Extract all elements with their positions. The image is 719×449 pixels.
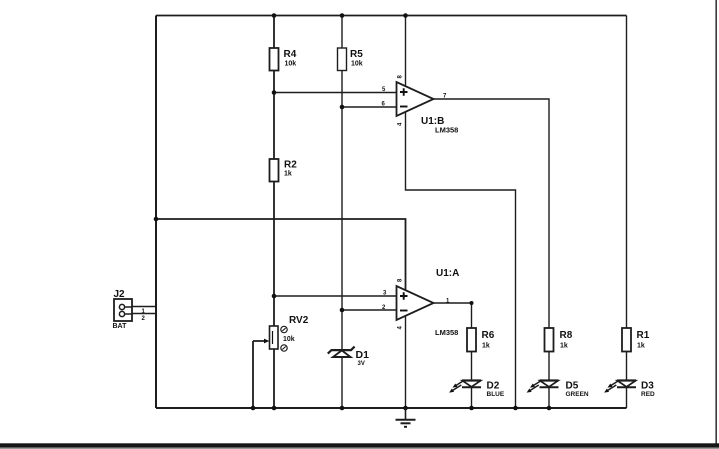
resistor R1 [622,328,650,352]
LED D2 triangle [463,381,481,387]
LED D3 [604,380,655,398]
svg-text:10k: 10k [351,61,363,68]
zener diode D1 cathode bar [328,347,355,354]
op-amp U1:A minus input symbol [400,310,408,312]
svg-text:R4: R4 [284,49,297,60]
resistor R6 body [467,328,476,352]
zener diode D1 anode triangle [333,350,351,357]
wire LED D5 cathode to bottom rail [548,387,550,408]
wire RV2 wiper to bottom rail [253,341,265,408]
svg-text:J2: J2 [114,289,126,300]
svg-text:1k: 1k [284,171,292,178]
wire R2 bottom to RV2 top [273,182,275,327]
wire node A to U1:B plus input pin 5 [274,92,397,94]
wire R6 bottom to LED D2 [471,352,473,382]
resistor R5 body [338,48,347,71]
junction bottom rail / RV2 [272,406,277,411]
resistor R8 body [545,328,554,352]
junction top rail / U1:B power [403,13,408,18]
resistor R6 [467,328,495,352]
potentiometer RV2 [264,315,309,351]
svg-text:RED: RED [641,391,655,398]
wire J2 pin 2 to left rail [132,313,156,315]
svg-text:D3: D3 [641,381,654,392]
wire left rail [155,16,157,409]
svg-text:D1: D1 [356,349,370,361]
junction node B (R2/RV2/pin3) [272,294,277,299]
zener diode D1 [328,347,369,367]
junction bottom rail / D2 [469,406,474,411]
junction node A (R4/R2/pin5) [272,90,277,95]
potentiometer RV2 bottom terminal marker [281,345,287,351]
svg-text:R5: R5 [350,49,363,60]
wire node B to U1:A plus input pin 3 [274,295,397,297]
svg-text:D5: D5 [566,381,579,392]
ground [396,408,416,427]
wire R4 bottom to node A [273,71,275,160]
junction node C (R5/pin6) [340,105,345,110]
junction node D (D1/pin2) [340,308,345,313]
wire RV2 bottom to bottom rail [273,349,275,408]
resistor R4 [270,48,297,71]
svg-text:GREEN: GREEN [566,391,589,398]
wire U1:B output pin 7 to R8 [434,99,550,328]
wire node D to U1:A minus input pin 2 [342,309,397,311]
svg-text:R6: R6 [482,330,495,341]
svg-text:1k: 1k [637,343,645,350]
LED D2 [449,380,505,398]
resistor R4 body [270,48,279,71]
op-amp U1:A [382,268,459,337]
LED D5 [527,380,589,398]
wire U1:A ground pin 4 to bottom rail [405,316,407,408]
potentiometer RV2 wiper arrow [264,339,269,344]
wire U1:A output pin 1 to R6 [434,303,472,328]
op-amp U1:B triangle body [397,82,434,116]
junction bottom rail / RV2 wiper [251,406,256,411]
junction bottom rail / D1 [340,406,345,411]
svg-text:R2: R2 [284,160,297,171]
wire LED D2 cathode to bottom rail [471,387,473,408]
svg-text:LM358: LM358 [435,328,458,337]
svg-text:BAT: BAT [113,323,128,330]
wire D1 anode to bottom rail [341,357,343,408]
svg-text:1k: 1k [482,343,490,350]
wire R5 bottom through node C to D1 [341,71,343,350]
wire top rail to R4 [273,16,275,49]
resistor R5 [338,48,364,71]
potentiometer RV2 body [270,326,279,349]
resistor R8 [545,328,573,352]
op-amp U1:B minus input symbol [400,106,408,108]
potentiometer RV2 top terminal marker [281,326,287,332]
connector J2 pin stubs [125,307,132,314]
resistor R2 [270,159,298,182]
junction bottom rail / U1:B ground [513,406,518,411]
svg-text:R8: R8 [560,330,573,341]
svg-text:RV2: RV2 [289,315,309,326]
connector J2 [113,289,146,330]
junction bottom rail / U1:A pin 4 [403,406,408,411]
svg-text:LM358: LM358 [435,126,458,135]
wire top rail to U1:B power pin 8 [405,16,407,87]
resistor R2 body [270,159,279,182]
wire J2 pin 1 to left rail [132,306,156,308]
junction left rail / mid rail [154,217,159,222]
junction bottom rail / D5 [547,406,552,411]
connector J2 pin 1 circle [119,304,124,309]
wire right rail down to R1 [626,16,628,329]
LED D5 triangle [540,381,558,387]
svg-text:10k: 10k [285,61,297,68]
svg-text:1k: 1k [560,343,568,350]
LED D3 triangle [618,381,636,387]
connector J2 body [114,299,132,321]
op-amp U1:A triangle body [397,286,434,320]
svg-text:D2: D2 [487,381,500,392]
wire node C to U1:B minus input pin 6 [342,106,397,108]
svg-text:3V: 3V [358,361,365,367]
connector J2 pin 2 circle [119,311,124,316]
svg-text:R1: R1 [637,330,650,341]
junction top rail / R5 [340,13,345,18]
window bottom bar [0,443,719,447]
svg-text:U1:A: U1:A [436,268,459,279]
op-amp U1:A plus input symbol [400,292,408,300]
wire U1:B ground pin 4 route to bottom rail [406,112,516,409]
svg-text:10k: 10k [283,336,295,343]
wire top rail to R5 [341,16,343,49]
junction U1:A output / R6 [470,301,474,305]
op-amp U1:B plus input symbol [400,88,408,96]
op-amp U1:B [382,75,459,135]
svg-text:BLUE: BLUE [487,391,505,398]
wire mid rail from left rail to U1:A power [156,219,406,290]
resistor R1 body [622,328,631,352]
window right border [715,0,717,444]
wire bottom rail (ground net) [156,407,627,409]
wire R1 bottom to LED D3 [626,352,628,382]
wire R8 bottom to LED D5 [548,352,550,382]
junction top rail / R4 [272,13,277,18]
wire LED D3 cathode to bottom rail [626,387,628,408]
wire top rail [156,15,627,17]
